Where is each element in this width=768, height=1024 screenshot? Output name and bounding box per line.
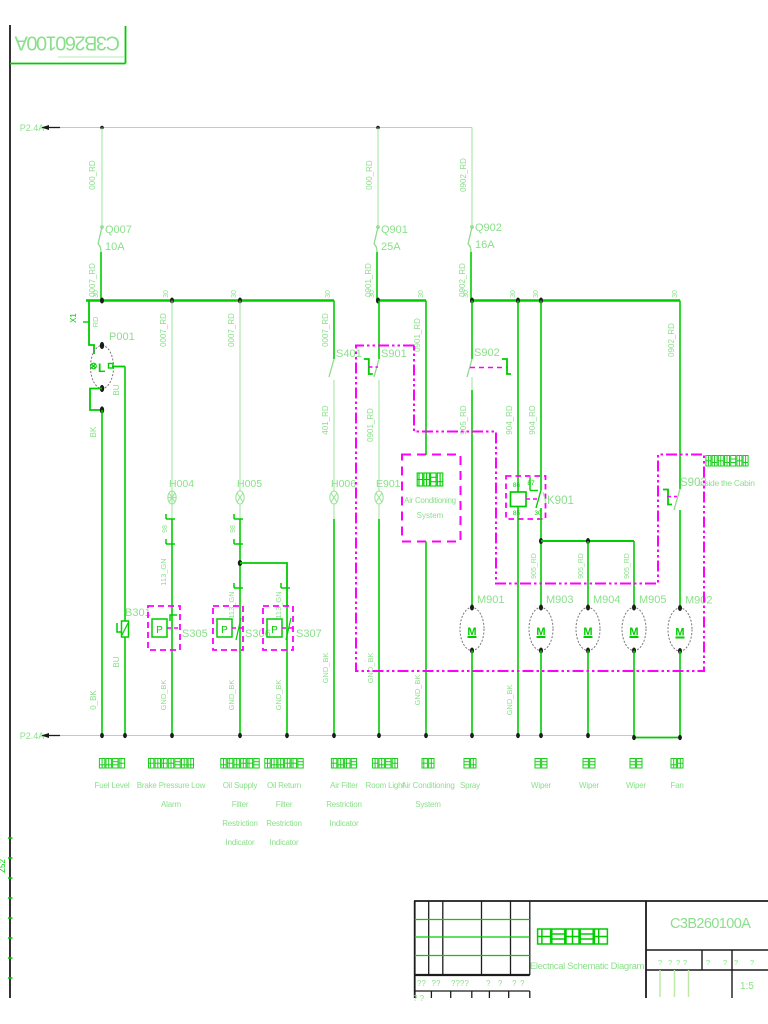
svg-text:Spray: Spray: [460, 781, 480, 790]
cabin note CN: [706, 456, 711, 467]
svg-text:Filter: Filter: [276, 800, 293, 809]
link S902 magenta dashes: [470, 367, 508, 369]
svg-text:?: ?: [723, 958, 727, 967]
svg-text:0007_RD: 0007_RD: [159, 313, 168, 347]
drawing number box (top-left, rotated): [125, 26, 127, 64]
svg-text:16A: 16A: [475, 239, 495, 251]
svg-text:M902: M902: [685, 595, 713, 607]
svg-text:Q901: Q901: [381, 224, 408, 236]
fuse Q902 16A: [468, 226, 473, 252]
svg-text:?: ?: [683, 958, 687, 967]
svg-text:30: 30: [93, 290, 100, 298]
svg-text:905_RD: 905_RD: [624, 553, 631, 579]
svg-text:?: ?: [750, 958, 754, 967]
ground bus wire: [60, 735, 634, 737]
wire drop M905: [633, 541, 635, 608]
wire bus3 to K901 contact: [540, 301, 542, 491]
svg-text:?: ?: [658, 958, 662, 967]
motor M905 wiper: [622, 594, 667, 651]
svg-text:?: ?: [706, 958, 710, 967]
svg-text:30: 30: [672, 290, 679, 298]
svg-text:Wiper: Wiper: [579, 781, 599, 790]
svg-text:RD: RD: [91, 316, 100, 327]
connector ticks H005: [234, 514, 243, 519]
svg-text:Inside the Cabin: Inside the Cabin: [698, 478, 755, 488]
fuse Q007 10A: [98, 226, 103, 252]
svg-text:P2.4A: P2.4A: [20, 731, 45, 741]
wire branch to S307: [240, 563, 287, 606]
actuator bracket S902: [502, 359, 511, 374]
svg-text:C3B260100A: C3B260100A: [670, 916, 751, 932]
bus 1: [86, 299, 334, 302]
link S901 magenta dashes: [369, 366, 379, 368]
svg-text:Wiper: Wiper: [531, 781, 551, 790]
wire Q007 feed: [101, 128, 103, 227]
function label Wiper: [630, 759, 635, 769]
svg-text:GND_BK: GND_BK: [159, 680, 168, 711]
svg-text:113_GN: 113_GN: [274, 591, 283, 618]
gauge P001 fuel level: [91, 346, 114, 389]
svg-text:GND_BK: GND_BK: [274, 680, 283, 711]
wire P001 sender branch: [112, 366, 125, 368]
svg-text:0_BK: 0_BK: [89, 690, 98, 710]
svg-text:P001: P001: [109, 331, 135, 343]
svg-text:Oil Return: Oil Return: [267, 781, 301, 790]
svg-text:Q007: Q007: [105, 224, 132, 236]
svg-text:905_RD: 905_RD: [459, 405, 468, 435]
svg-text:M901: M901: [477, 594, 505, 606]
bus 3: [471, 299, 680, 302]
wire bus1 end down to S401: [333, 301, 335, 360]
svg-text:M903: M903: [546, 594, 574, 606]
svg-text:BU: BU: [112, 384, 121, 395]
svg-text:Restriction: Restriction: [326, 800, 362, 809]
motor M903 wiper: [529, 594, 574, 651]
svg-text:1:5: 1:5: [740, 981, 754, 992]
wire drop M904: [587, 541, 589, 608]
relay K901 coil: [511, 492, 527, 507]
function label Room Light: [372, 759, 377, 769]
function label Brake Pressure Low: [149, 759, 154, 769]
svg-text:GND_BK: GND_BK: [505, 685, 514, 716]
junction top rail x102: [100, 126, 104, 130]
svg-text:86: 86: [513, 482, 521, 489]
function label Spray: [464, 759, 469, 769]
wire M903 to ground bus: [540, 651, 542, 736]
svg-text:Air Filter: Air Filter: [330, 781, 358, 790]
svg-text:S305: S305: [182, 628, 208, 640]
lamp H004: [168, 491, 176, 504]
arrow to P2.4A bottom: [47, 735, 60, 737]
svg-text:Air Conditioning: Air Conditioning: [401, 781, 454, 790]
svg-text:M905: M905: [639, 594, 667, 606]
wire S903 to M902: [679, 510, 681, 608]
svg-text:30: 30: [533, 290, 540, 298]
svg-text:BU: BU: [112, 656, 121, 667]
svg-text:Wiper: Wiper: [626, 781, 646, 790]
relay K901 contact: [530, 477, 541, 508]
wire K901 coil to ground bus: [517, 507, 519, 736]
pressure switch S305: [148, 606, 180, 650]
svg-text:H006: H006: [331, 478, 356, 490]
svg-text:M904: M904: [593, 594, 621, 606]
wire S902 to M901: [471, 377, 473, 390]
function label Air Conditioning: [422, 759, 427, 769]
svg-text:System: System: [415, 800, 441, 809]
function label Fan: [671, 759, 676, 769]
wire AC box to ground bus: [425, 542, 427, 736]
svg-text:Filter: Filter: [232, 800, 249, 809]
svg-text:0901_RD: 0901_RD: [366, 408, 375, 442]
svg-text:Indicator: Indicator: [226, 838, 255, 847]
border zone ticks: [8, 837, 13, 839]
svg-text:? ?: ? ?: [413, 994, 425, 1003]
svg-text:Restriction: Restriction: [266, 819, 302, 828]
wire H006 to ground bus: [333, 504, 335, 519]
function label Wiper: [535, 759, 540, 769]
wire below H004: [171, 504, 173, 519]
ground bus junctions: [100, 733, 104, 738]
function label Wiper: [583, 759, 588, 769]
svg-text:10A: 10A: [105, 241, 125, 253]
wire S401 to H006: [333, 380, 335, 491]
svg-text:Fuel Level: Fuel Level: [95, 781, 130, 790]
actuator bracket S903: [663, 490, 672, 505]
lamp H006: [330, 491, 338, 504]
svg-text:GND_BK: GND_BK: [227, 680, 236, 711]
svg-text:113_GN: 113_GN: [159, 558, 168, 585]
wire M905 to ground bus: [633, 651, 635, 738]
wire Q902 feed: [471, 128, 473, 227]
svg-text:L: L: [98, 361, 105, 375]
svg-text:C3B260100A: C3B260100A: [14, 32, 120, 54]
svg-text:????: ????: [451, 979, 469, 988]
svg-text:Fan: Fan: [670, 781, 683, 790]
svg-text:?: ?: [676, 958, 680, 967]
wire E901 to ground bus: [378, 504, 380, 519]
svg-text:P: P: [221, 625, 228, 636]
title text CN: [538, 929, 551, 944]
wire B301 to ground bus: [124, 637, 126, 736]
svg-text:Electrical Schematic Diagram: Electrical Schematic Diagram: [530, 961, 645, 972]
svg-text:0902_RD: 0902_RD: [667, 323, 676, 357]
bus1 junctions: [100, 298, 104, 304]
svg-text:98: 98: [230, 525, 237, 533]
svg-text:Indicator: Indicator: [270, 838, 299, 847]
svg-text:X1: X1: [69, 313, 78, 323]
motor feed rail: [541, 540, 634, 542]
wire K901 contact to motor rail: [540, 508, 542, 608]
svg-text:GND_BK: GND_BK: [413, 675, 422, 706]
svg-text:BK: BK: [89, 426, 98, 437]
svg-text:E901: E901: [376, 478, 401, 490]
wire M904 to ground bus: [587, 651, 589, 736]
scale cell rules: [659, 970, 661, 997]
svg-text:GND_BK: GND_BK: [321, 653, 330, 684]
title block left grid: [415, 901, 530, 998]
actuator bracket S901: [364, 359, 373, 374]
wire P001 bottom bracket: [90, 389, 102, 411]
wire bus3 end to S903: [679, 301, 681, 490]
svg-text:30: 30: [369, 290, 376, 298]
wire M901 to ground bus: [471, 651, 473, 736]
svg-text:905_RD: 905_RD: [578, 553, 585, 579]
wire bus1 to P001 connector X1: [89, 301, 94, 354]
connector tick S307 wire: [281, 583, 290, 588]
svg-text:0007_RD: 0007_RD: [227, 313, 236, 347]
wire Q901 to bus2: [376, 252, 378, 300]
svg-text:S901: S901: [381, 348, 407, 360]
svg-text:??: ??: [417, 979, 426, 988]
title block right grid: [646, 950, 768, 998]
svg-text:S401: S401: [336, 348, 362, 360]
function label Air Filter: [331, 759, 336, 769]
pressure switch S307: [263, 606, 293, 650]
wire Q007 to bus1: [100, 252, 102, 300]
svg-text:Z52: Z52: [0, 859, 7, 873]
relay K901 box: [506, 476, 546, 519]
svg-text:P: P: [156, 625, 163, 636]
fuse Q901 25A: [374, 226, 379, 252]
function label Oil Supply: [221, 759, 226, 769]
svg-text:System: System: [417, 511, 444, 520]
air conditioning system box: [402, 455, 461, 542]
svg-text:Restriction: Restriction: [222, 819, 258, 828]
svg-text:?: ?: [486, 979, 491, 988]
svg-text:Alarm: Alarm: [161, 800, 181, 809]
wire bus3 to K901 coil: [517, 301, 519, 493]
function label Fuel Level: [99, 759, 104, 769]
wire top rail: [60, 127, 472, 129]
arrow to P2.4A: [47, 127, 60, 129]
pressure switch S306: [213, 606, 243, 650]
motor M904 wiper: [576, 594, 621, 651]
svg-text:30: 30: [231, 290, 238, 298]
label air conditioning CN: [417, 473, 423, 486]
wire bus1 to lamp H004: [171, 301, 173, 492]
wire M902 to ground bus: [679, 651, 681, 738]
svg-text:0007_RD: 0007_RD: [321, 313, 330, 347]
svg-text:98: 98: [162, 525, 169, 533]
svg-text:S902: S902: [474, 347, 500, 359]
svg-text:113_GN: 113_GN: [227, 591, 236, 618]
wire S901 to E901: [378, 380, 380, 491]
svg-text:S307: S307: [296, 628, 322, 640]
svg-text:Room Light: Room Light: [366, 781, 406, 790]
svg-text:?: ?: [512, 979, 517, 988]
svg-text:K901: K901: [547, 495, 574, 507]
svg-text:30: 30: [463, 290, 470, 298]
title block frame: [414, 901, 768, 998]
connector tick S306 wire: [234, 583, 243, 588]
lamp E901: [375, 491, 383, 504]
svg-text:000_RD: 000_RD: [365, 160, 374, 190]
svg-text:?: ?: [520, 979, 525, 988]
junction H005 branch: [238, 560, 242, 566]
connector ticks H004: [166, 514, 175, 519]
function label Oil Return: [265, 759, 270, 769]
link S903 magenta dashes: [667, 496, 677, 498]
svg-text:Indicator: Indicator: [330, 819, 359, 828]
junction top rail x378: [376, 126, 380, 130]
relay K901 link: [526, 498, 537, 500]
left sheet border: [9, 25, 11, 998]
wire bus2 to air conditioning box: [425, 301, 427, 456]
wire Q902 to bus3: [470, 252, 472, 300]
svg-text:?: ?: [498, 979, 503, 988]
svg-text:Q902: Q902: [475, 222, 502, 234]
svg-text:904_RD: 904_RD: [528, 405, 537, 435]
svg-text:P: P: [271, 625, 278, 636]
motor M901 spray: [460, 594, 505, 651]
svg-text:P2.4A: P2.4A: [20, 123, 45, 133]
svg-text:30: 30: [418, 290, 425, 298]
lamp H005: [236, 491, 244, 504]
bus 2: [377, 299, 426, 302]
svg-text:904_RD: 904_RD: [505, 405, 514, 435]
wire below H005: [239, 504, 241, 519]
svg-text:Oil Supply: Oil Supply: [223, 781, 258, 790]
svg-text:30: 30: [325, 290, 332, 298]
svg-text:??: ??: [432, 979, 441, 988]
motor M902 fan: [668, 595, 713, 652]
wire P001 to ground bus: [101, 410, 103, 736]
svg-text:H005: H005: [237, 478, 262, 490]
title block left green rules: [415, 919, 530, 921]
svg-text:?: ?: [734, 958, 738, 967]
cabin enclosure boundary (dash-dot): [356, 346, 704, 672]
svg-text:Air Conditioning: Air Conditioning: [404, 496, 456, 505]
svg-text:Brake Pressure Low: Brake Pressure Low: [137, 781, 206, 790]
svg-text:H004: H004: [169, 478, 194, 490]
svg-text:0902_RD: 0902_RD: [459, 158, 468, 192]
svg-text:GND_BK: GND_BK: [366, 653, 375, 684]
svg-text:000_RD: 000_RD: [88, 160, 97, 190]
svg-text:87: 87: [527, 480, 535, 487]
wire bus1 to lamp H005: [239, 301, 241, 492]
svg-text:25A: 25A: [381, 241, 401, 253]
svg-text:30: 30: [163, 290, 170, 298]
svg-text:401_RD: 401_RD: [321, 405, 330, 435]
svg-text:30: 30: [510, 290, 517, 298]
wire Q901 feed: [377, 128, 379, 227]
svg-text:905_RD: 905_RD: [531, 553, 538, 579]
ground bus right step: [634, 737, 680, 739]
svg-text:85: 85: [513, 510, 521, 517]
svg-text:B301: B301: [125, 607, 151, 619]
svg-text:?: ?: [668, 958, 672, 967]
